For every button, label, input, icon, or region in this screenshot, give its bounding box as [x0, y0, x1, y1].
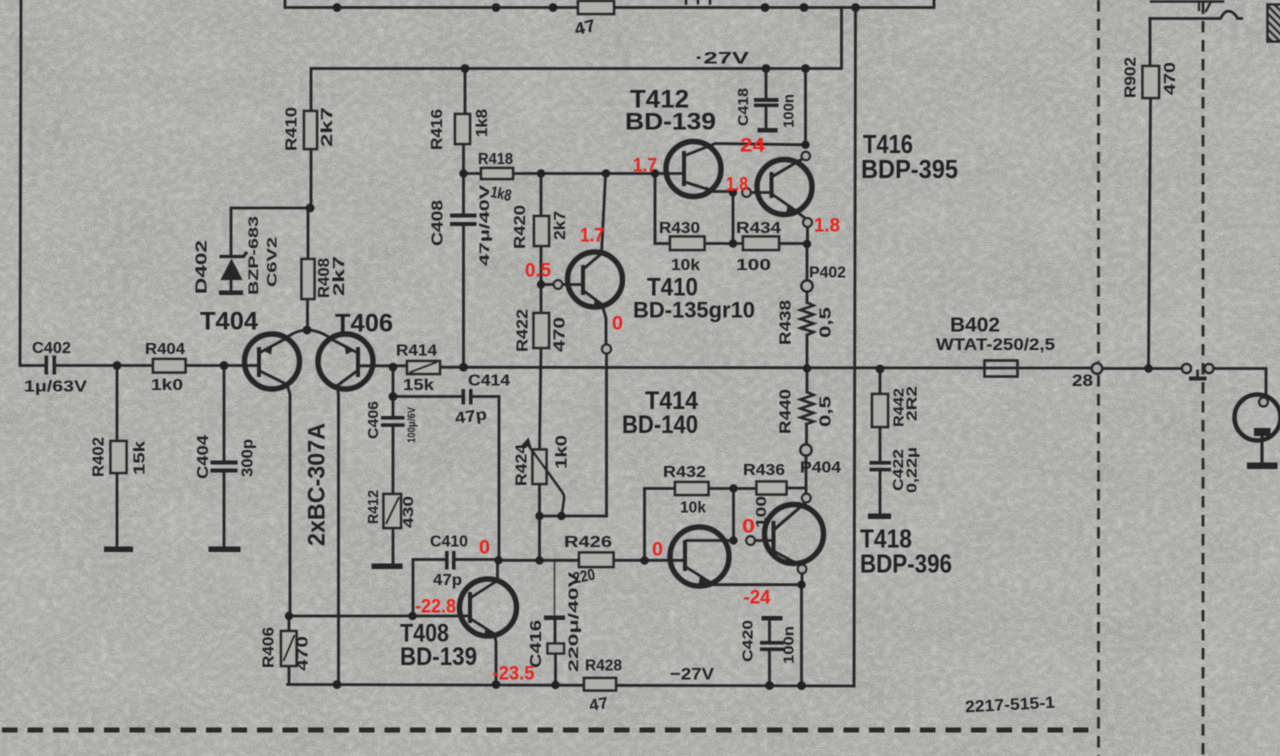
svg-text:470: 470: [552, 317, 569, 352]
speaker lamp symbol: [1235, 395, 1280, 470]
svg-text:WTAT-250/2,5: WTAT-250/2,5: [936, 335, 1055, 354]
svg-text:R440: R440: [778, 389, 795, 434]
capacitor C416 body: [548, 644, 565, 654]
switch contact tee mark: [1196, 370, 1199, 377]
resistor R432: [675, 482, 709, 495]
svg-text:BD-139: BD-139: [625, 109, 716, 136]
capacitor C406 plates: [381, 416, 405, 420]
svg-text:2xBC-307A: 2xBC-307A: [304, 423, 331, 546]
wire T416 collector node to +27V rail: [804, 69, 807, 145]
resistor R436: [757, 482, 787, 495]
diode D402 triangle: [221, 259, 243, 281]
resistor R408: [302, 259, 315, 299]
svg-text:0.5: 0.5: [525, 261, 551, 282]
svg-text:47μ/40V: 47μ/40V: [476, 184, 492, 266]
svg-text:0,5: 0,5: [818, 307, 835, 338]
node R438 R440 on output line: [803, 364, 811, 372]
test point T416 emitter: [803, 218, 812, 227]
svg-text:1.7: 1.7: [580, 226, 604, 247]
resistor R402: [111, 441, 127, 473]
resistor R416: [455, 114, 470, 144]
dashed boundary bottom: [2, 728, 1094, 733]
wire R430 left lead from T412 base line: [655, 174, 670, 244]
capacitor C414 plates: [462, 389, 466, 405]
node R424 on T414 base line: [535, 556, 543, 564]
svg-text:100n: 100n: [781, 94, 798, 128]
resistor R438 zigzag: [801, 303, 814, 336]
wire T408 emitter lead to bottom rail: [495, 634, 497, 685]
resistor R424 wiper diagonal: [528, 444, 565, 514]
transistor T408: [460, 579, 517, 638]
test point T418 base: [746, 536, 755, 545]
svg-text:R436: R436: [743, 462, 785, 479]
svg-text:C6V2: C6V2: [264, 237, 280, 287]
node C404 input: [220, 361, 229, 370]
wire bottom rail: [288, 685, 855, 687]
svg-text:C420: C420: [740, 620, 757, 662]
svg-text:0: 0: [742, 517, 755, 538]
capacitor C420 plates: [760, 641, 784, 645]
svg-text:R410: R410: [284, 107, 301, 151]
svg-text:R422: R422: [515, 309, 532, 352]
node T410 base: [537, 280, 545, 288]
svg-text:1k0: 1k0: [151, 377, 183, 394]
resistor R414 slash: [410, 362, 438, 373]
svg-text:R424: R424: [514, 444, 531, 486]
resistor R430: [670, 237, 705, 251]
wire C404 branch: [223, 366, 226, 548]
wire main output line: [440, 367, 1266, 399]
capacitor C418 plates: [754, 98, 779, 102]
wire T416 emitter down: [796, 211, 808, 245]
wire R420 leads: [540, 174, 543, 285]
svg-text:10k: 10k: [671, 257, 700, 274]
svg-text:100: 100: [753, 496, 770, 528]
resistor R902: [1143, 66, 1160, 98]
svg-text:R434: R434: [736, 220, 781, 237]
wire T414 collector line to junction and T418 base: [687, 539, 772, 542]
wire C416 lower lead: [554, 621, 557, 686]
svg-text:BZP-683: BZP-683: [245, 216, 261, 295]
capacitor C410 plates: [445, 551, 449, 570]
svg-text:1k0: 1k0: [554, 435, 571, 469]
wire T410 emitter column: [602, 305, 607, 517]
wire +27V rail: [311, 8, 842, 112]
wire C402 to R404 to T404 base: [57, 364, 260, 367]
svg-text:BD-139: BD-139: [400, 643, 477, 671]
svg-text:10k: 10k: [680, 500, 706, 517]
wire R434 right lead: [779, 242, 807, 245]
resistor R414 preset: [407, 361, 440, 374]
diode D402 end bar: [219, 291, 243, 296]
trimmer point P404: [800, 444, 811, 455]
node R430 R434: [729, 239, 737, 247]
wire T412 emitter tap down to R430 R434 junction: [732, 193, 735, 244]
svg-text:0: 0: [612, 314, 623, 335]
wire R406 leads: [288, 616, 291, 685]
wire D402 branch: [231, 208, 310, 291]
wire input line from left: [20, 0, 45, 366]
svg-text:0,5: 0,5: [818, 396, 835, 427]
resistor R434: [743, 237, 779, 251]
svg-text:1k8: 1k8: [474, 109, 491, 137]
wire T412 collector line to T416: [716, 144, 806, 145]
node R434 T416 emitter: [803, 240, 811, 248]
ground bar R402: [104, 547, 133, 553]
transistor T410: [568, 252, 623, 309]
wire R416 bottom to R418 junction: [464, 144, 482, 174]
wire R902 column: [1149, 19, 1151, 369]
wire T418 collector diagonal: [775, 503, 806, 530]
svg-text:R406: R406: [261, 627, 278, 668]
switch contact circles: [1182, 364, 1191, 373]
ground bar R412: [372, 564, 403, 570]
resistor R420: [534, 216, 549, 246]
svg-text:220μ/40V: 220μ/40V: [565, 571, 581, 672]
resistor 47 top rail: [578, 1, 614, 14]
wire feedback node below R414: [392, 367, 395, 397]
junctions on bottom rail: [333, 680, 806, 690]
svg-text:C414: C414: [468, 373, 510, 390]
resistor R410: [304, 111, 317, 149]
resistor R440 zigzag: [801, 392, 814, 424]
transistor T404: [245, 334, 300, 389]
svg-text:BD-140: BD-140: [622, 411, 698, 439]
capacitor C422 plates: [870, 461, 892, 465]
node R402 input: [113, 361, 122, 370]
resistor R428: [584, 678, 616, 691]
wire R408 leads: [306, 208, 309, 330]
wire stubs above top rail: [686, 0, 710, 4]
node T414 T418 emitters: [797, 581, 805, 589]
node R442 on output line: [876, 365, 885, 374]
svg-text:-22.8: -22.8: [415, 597, 456, 618]
capacitor C422 end bar: [868, 514, 891, 520]
test point T416 collector: [802, 152, 810, 160]
wire P402 column R438 R440 P404: [806, 244, 807, 494]
svg-text:R420: R420: [512, 205, 529, 249]
wire C416 thin tap: [554, 561, 556, 616]
svg-text:D402: D402: [194, 240, 211, 294]
wire C418 leads: [765, 69, 768, 129]
wire C420 leads: [768, 621, 771, 686]
svg-text:T404: T404: [200, 308, 258, 336]
node T404 collector R406 T408 base: [285, 612, 293, 620]
svg-text:R414: R414: [396, 343, 437, 360]
wire R442 C422 branch: [879, 369, 882, 514]
svg-text:B402: B402: [950, 315, 1000, 337]
capacitor C408 plates: [450, 214, 477, 218]
node R432 R436: [729, 484, 737, 492]
svg-text:2k7: 2k7: [331, 256, 348, 296]
ground bar C404: [209, 547, 241, 553]
svg-text:C406: C406: [365, 401, 382, 439]
svg-text:C402: C402: [32, 340, 71, 357]
transistor T418: [765, 503, 824, 566]
node R902 on output line: [1144, 364, 1152, 372]
junctions on +27V rail: [461, 64, 810, 73]
svg-text:R418: R418: [478, 151, 513, 168]
wire R432 R436 junction down to collector line: [732, 489, 735, 541]
node R432 on T414 base line: [640, 556, 648, 564]
svg-text:R404: R404: [145, 341, 185, 358]
node T414 collector T418 base: [729, 536, 737, 544]
resistor R442: [872, 394, 888, 427]
resistor R404: [153, 359, 186, 373]
node T404 T406 emitters: [303, 326, 312, 335]
resistor R412 slash: [386, 497, 399, 524]
svg-text:0: 0: [652, 540, 663, 561]
node C410 at T408 base: [408, 612, 416, 620]
hatched connector box top right: [1268, 5, 1280, 42]
svg-text:1.7: 1.7: [633, 156, 657, 177]
svg-text:BDP-396: BDP-396: [860, 549, 952, 579]
node feedback C414 C406: [389, 392, 398, 401]
wire T406 collector down to bottom rail: [338, 386, 339, 685]
capacitor C402 plates: [45, 356, 49, 375]
wire C410 right to T408 collector node: [457, 558, 499, 561]
svg-text:0,22μ: 0,22μ: [904, 447, 921, 493]
svg-text:R902: R902: [1123, 57, 1140, 98]
trimmer point P402: [801, 280, 812, 291]
wire R416 upper lead: [464, 69, 467, 115]
capacitor C420 end bar: [762, 616, 783, 621]
wire T414 emitter line: [711, 583, 802, 585]
svg-text:C416: C416: [528, 620, 545, 668]
capacitor C404 plates: [211, 461, 238, 465]
node T408 collector: [494, 556, 502, 564]
svg-text:1.8: 1.8: [726, 175, 748, 196]
resistor R424 wiper arrowhead: [522, 438, 532, 448]
wire R436 right lead to P404 column: [787, 487, 807, 490]
resistor R426: [579, 553, 614, 568]
fuse B402: [985, 361, 1018, 377]
transistor T406: [318, 334, 373, 389]
wire top supply rail: [285, 0, 934, 8]
wire C406 R412 chain to ground: [392, 397, 395, 564]
wire long right vertical (supply to bottom rail): [854, 8, 856, 687]
wire T412 emitter to T416 base: [715, 192, 772, 193]
wire node line T408 collector to T414 base: [499, 559, 686, 562]
svg-text:R412: R412: [365, 490, 382, 524]
svg-text:-23.5: -23.5: [493, 664, 535, 685]
svg-text:R402: R402: [91, 437, 108, 477]
svg-text:1.8: 1.8: [814, 216, 840, 237]
node feedback tap at R414: [389, 363, 398, 372]
wire top right tick: [1199, 2, 1211, 12]
svg-text:2k7: 2k7: [319, 107, 336, 147]
svg-text:P404: P404: [800, 460, 841, 477]
wire T408 base line: [289, 615, 468, 618]
svg-text:100μ/6V: 100μ/6V: [406, 406, 418, 443]
wire R432 left lead from T414 base node: [645, 489, 676, 561]
dashed boundary vertical at terminal 28: [1097, 0, 1100, 756]
svg-text:R430: R430: [659, 220, 700, 237]
svg-text:430: 430: [400, 496, 417, 528]
svg-text:C404: C404: [195, 435, 212, 479]
junctions on top supply rail: [333, 3, 860, 12]
diode D402 zener bar: [220, 252, 248, 257]
svg-text:100: 100: [736, 257, 771, 274]
svg-text:R426: R426: [564, 534, 612, 551]
wire emitter node down to bottom rail: [800, 585, 803, 686]
svg-text:−27V: −27V: [670, 665, 715, 684]
transistor T414: [670, 527, 729, 586]
test point T418 collector: [802, 494, 811, 503]
capacitor C418 end bar: [758, 128, 778, 133]
test point T418 emitter: [798, 565, 807, 574]
node T412 emitter tap: [729, 188, 737, 196]
node C408 on output line: [459, 363, 468, 372]
resistor R422: [534, 313, 550, 348]
node R424 bottom: [535, 512, 543, 520]
wire T408 collector lead: [496, 560, 499, 578]
wire T418 emitter lead: [795, 563, 802, 585]
svg-text:47p: 47p: [433, 572, 462, 589]
resistor R424 preset: [533, 450, 547, 485]
resistor R418: [481, 168, 513, 179]
dashed boundary vertical right: [1202, 2, 1205, 14]
svg-text:R432: R432: [663, 464, 706, 481]
svg-text:2k7: 2k7: [552, 211, 569, 240]
svg-text:24: 24: [740, 136, 766, 157]
svg-text:1μ/63V: 1μ/63V: [24, 379, 87, 396]
svg-text:BDP-395: BDP-395: [861, 154, 958, 184]
transistor T416: [757, 159, 812, 215]
node T412 collector to +27V: [801, 141, 809, 149]
wire R424 bottom to tap line: [540, 484, 607, 560]
svg-text:R416: R416: [429, 109, 446, 150]
wire R418 right to T412 base: [513, 172, 684, 175]
wire R410 lower lead to D402 node: [310, 149, 313, 208]
svg-text:47: 47: [588, 695, 610, 715]
transistor T412: [666, 142, 721, 197]
wire T406 base to R414: [358, 364, 407, 367]
resistor R406: [281, 631, 297, 666]
svg-text:100n: 100n: [781, 626, 798, 664]
wire R902 top to switch with hop: [1150, 11, 1242, 18]
svg-text:BD-135gr10: BD-135gr10: [633, 298, 755, 323]
svg-text:·27V: ·27V: [695, 49, 750, 68]
wire R422 lead and column through output line: [540, 285, 542, 450]
svg-text:2R2: 2R2: [904, 386, 921, 421]
wire T410 collector up to base line of T412: [602, 175, 606, 254]
wire C408 leads: [462, 174, 465, 368]
svg-text:0: 0: [479, 538, 490, 559]
svg-text:C410: C410: [430, 534, 468, 551]
wire R432 to R436: [709, 487, 757, 490]
wire T404 collector down to T408 base node: [287, 385, 290, 617]
svg-text:470: 470: [295, 636, 312, 671]
svg-text:T406: T406: [335, 310, 393, 338]
resistor R406 slash: [284, 635, 295, 661]
svg-text:R438: R438: [778, 300, 795, 345]
test point T416 base: [742, 188, 751, 197]
node D402 R410 R408: [306, 204, 315, 213]
output terminal 28 circle: [1092, 363, 1102, 373]
svg-text:300p: 300p: [240, 439, 257, 477]
wire feedback line to C414 and down: [393, 397, 499, 561]
wire top right corner segment: [1151, 0, 1223, 2]
test point T410 emitter: [602, 345, 611, 354]
svg-text:C418: C418: [735, 88, 752, 126]
capacitor C416 top plate: [544, 616, 565, 621]
resistor R412: [384, 494, 402, 528]
svg-text:470: 470: [1162, 62, 1179, 95]
node R424 wiper tap: [557, 512, 565, 520]
svg-text:-24: -24: [744, 588, 771, 609]
wire R402 branch: [116, 366, 119, 548]
wire C410 line left of plates: [413, 560, 445, 617]
wire T410 base connection: [541, 283, 583, 286]
svg-text:C408: C408: [430, 200, 447, 246]
junctions on T412 base line: [459, 169, 659, 177]
svg-text:R428: R428: [585, 658, 622, 675]
svg-text:15k: 15k: [132, 441, 149, 475]
wire R430 to R434: [705, 242, 744, 245]
svg-text:28: 28: [1072, 371, 1093, 390]
svg-text:P402: P402: [809, 265, 846, 282]
test point T410 base: [554, 280, 563, 289]
wire T404 T406 emitter arcs: [284, 330, 332, 340]
svg-text:15k: 15k: [403, 377, 434, 394]
